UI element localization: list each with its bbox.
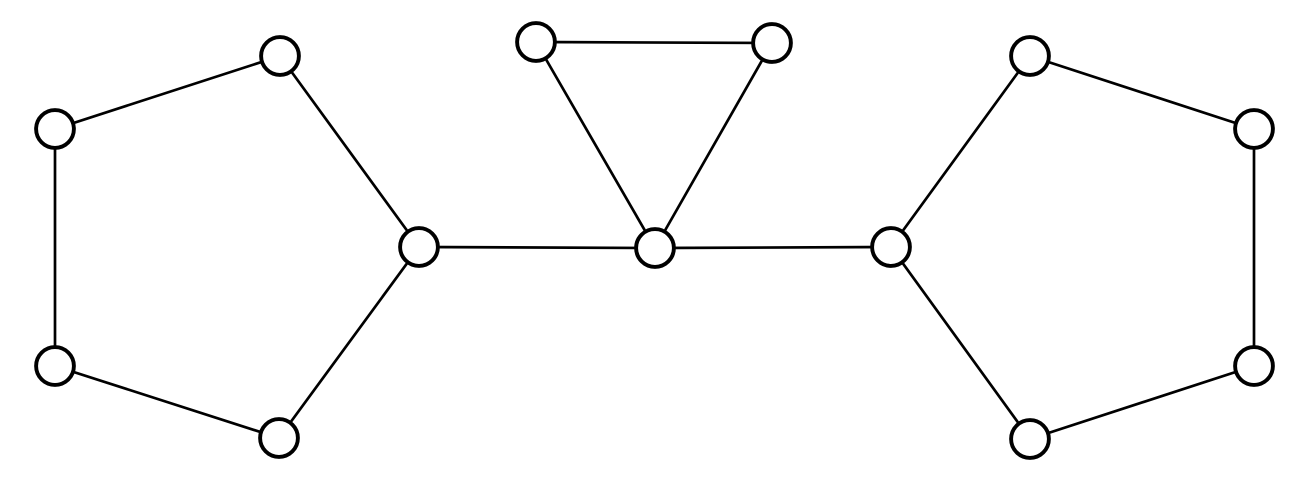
node n11 — [1235, 110, 1273, 148]
node n5 — [400, 228, 438, 266]
wire edge n4-n5 — [279, 247, 419, 438]
wire edge n6-n8 — [536, 42, 655, 248]
node n6 — [517, 23, 555, 61]
wire edge n10-n11 — [1030, 56, 1254, 129]
node n8 — [636, 229, 674, 267]
wire edge n5-n8 — [419, 247, 655, 248]
node n2 — [36, 110, 74, 148]
wire edge n2-n3 — [54, 129, 57, 366]
node n10 — [1011, 37, 1049, 75]
wire edge n12-n13 — [1030, 366, 1254, 439]
node n4 — [260, 419, 298, 457]
wire edge n6-n7 — [536, 42, 772, 43]
node n13 — [1011, 420, 1049, 458]
wire edge n7-n8 — [655, 43, 772, 248]
wire edge n11-n12 — [1253, 129, 1256, 366]
wire edge n8-n9 — [655, 247, 891, 248]
wire edge n1-n2 — [55, 56, 280, 129]
wire edge n9-n10 — [891, 56, 1030, 247]
wire edge n3-n4 — [55, 366, 279, 438]
wire edge n13-n9 — [891, 247, 1030, 439]
node n1 — [261, 37, 299, 75]
node n12 — [1235, 347, 1273, 385]
wire edge n5-n1 — [280, 56, 419, 247]
node n3 — [36, 347, 74, 385]
node n9 — [872, 228, 910, 266]
node n7 — [753, 24, 791, 62]
